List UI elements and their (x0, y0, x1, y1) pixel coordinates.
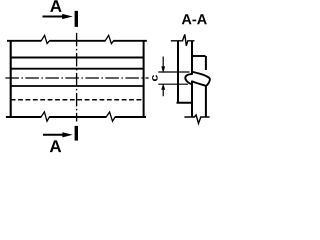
section: lower sheet left edge (177, 41, 179, 103)
lower sheet hidden edge (dashed) (11, 99, 144, 101)
section label A (top) (50, 0, 61, 12)
section: upper sheet top end edge (192, 55, 206, 57)
break zigzag bottom right (106, 112, 115, 121)
section: upper sheet bottom break line (184, 115, 209, 124)
weld nugget: left lobe arc (185, 74, 192, 85)
section: faying interface line (interrupted by nugget) (191, 41, 193, 117)
weld seam axis (dash-dot) (5, 77, 148, 79)
section: lower sheet top break line (171, 34, 195, 46)
plate outline top edge (7, 40, 147, 42)
section cut bar (top) (75, 11, 78, 27)
vertical centerline (dash-dot) (76, 33, 78, 122)
section label A (bottom) (50, 140, 61, 152)
dimension label c (rotated) (152, 75, 158, 81)
section arrow (bottom) (43, 134, 64, 136)
upper sheet visible edge line (11, 57, 144, 59)
plate right edge (143, 40, 145, 117)
section arrow (top) (43, 16, 65, 18)
weld nugget: right lobe (cone with rounded nose) (192, 72, 210, 86)
plate left edge (10, 40, 12, 117)
weld seam upper line (11, 68, 144, 70)
section title A-A (182, 14, 207, 24)
break zigzag top right (105, 35, 113, 43)
weld seam lower line (11, 85, 144, 87)
section: lower sheet bottom end edge (177, 102, 193, 104)
break zigzag bottom left (41, 112, 49, 121)
dimension c: dimension line with outside arrows (162, 57, 164, 97)
plate outline bottom edge (6, 116, 146, 118)
section: upper sheet right edge (interrupted by weld bead) (205, 56, 207, 117)
dimension c: extension lines (158, 72, 189, 84)
break zigzag top left (41, 35, 49, 43)
section cut bar (bottom) (75, 126, 78, 141)
